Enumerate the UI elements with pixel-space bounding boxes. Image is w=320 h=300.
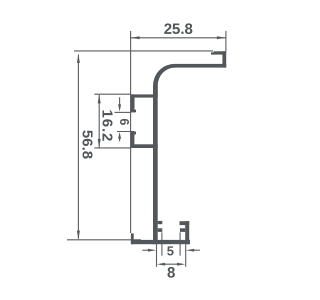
extension line outer-right of dim 8 (x=185.7)	[185, 245, 187, 267]
extension line right of dim 25.8 (x=225.9)	[225, 31, 227, 52]
dimension 6 lower arrow shaft	[119, 138, 121, 141]
extension line inner-left of dim 5 (x=161.9)	[161, 232, 163, 255]
profile hook top-left step	[211, 52, 215, 54]
arrowhead 5 left pointing right	[148, 249, 156, 252]
profile top arm	[175, 64, 227, 68]
profile foot left lip	[131, 233, 134, 244]
svg-text:16.2: 16.2	[99, 110, 116, 143]
profile hook top bar	[214, 51, 227, 54]
profile upper-left tab lip foot	[131, 110, 136, 113]
profile right tab top cap	[180, 221, 190, 225]
dimension line 16.2	[98, 95, 100, 148]
profile stem tooth B	[158, 228, 163, 232]
svg-text:25.8: 25.8	[164, 21, 193, 38]
arrowhead 25.8 right	[217, 36, 226, 39]
profile upper-left tab top bar	[131, 94, 158, 97]
arrowhead 16.2 up	[98, 94, 101, 103]
svg-text:5: 5	[167, 243, 174, 258]
profile right tab mid tooth	[180, 228, 185, 232]
arrowhead 8 right	[177, 263, 185, 266]
arrowhead 8 left	[157, 263, 165, 266]
profile hook right end bar	[222, 51, 226, 67]
arrowhead 6 down	[118, 104, 121, 111]
extension line top of dim 16.2 (y=94.2)	[94, 93, 131, 95]
dimension line 25.8	[131, 37, 226, 39]
svg-text:6: 6	[117, 118, 131, 125]
dimension 5 right arrow shaft	[194, 249, 200, 251]
extension line bottom of dim 56.8 (y=239.8)	[67, 239, 141, 241]
arrowhead 56.8 down	[77, 231, 80, 240]
dimension line 8	[160, 263, 182, 265]
extension line bottom of dim 16.2 (y=147.9)	[94, 147, 131, 149]
profile right tab vertical bar	[185, 221, 189, 244]
profile lower-left tab vertical bar	[131, 132, 135, 149]
profile lower-left tab floor	[131, 144, 158, 148]
svg-text:56.8: 56.8	[79, 130, 96, 159]
extension line top of dim 6 (y=112.4)	[115, 111, 131, 113]
arrowhead 25.8 left	[131, 36, 140, 39]
profile lower-left tab top nub	[131, 132, 136, 135]
dimension line 56.8	[77, 55, 79, 239]
arrowhead 16.2 down	[98, 139, 101, 148]
svg-text:8: 8	[167, 264, 175, 281]
profile upper-left tab lip	[131, 94, 135, 112]
dimension 6 upper arrow shaft	[119, 97, 121, 105]
extension line inner-right of dim 5 (x=180.1)	[179, 232, 181, 255]
arrowhead 56.8 up	[77, 54, 80, 63]
arrowhead 5 right pointing left	[186, 249, 194, 252]
profile foot bottom bar	[131, 240, 190, 244]
profile elbow curve	[153, 64, 175, 95]
profile stem tooth A	[158, 221, 163, 224]
extension line left of dim 25.8 (x=130.6)	[130, 31, 132, 233]
dimension 5 left arrow shaft	[142, 249, 148, 251]
extension line outer-left of dim 8 (x=156.5)	[156, 245, 158, 267]
arrowhead 6 up	[118, 132, 121, 139]
profile vertical stem	[153, 85, 158, 244]
extension line top of dim 56.8 (y=50.9)	[74, 50, 213, 52]
extension line bottom of dim 6 (y=131.5)	[117, 131, 134, 133]
